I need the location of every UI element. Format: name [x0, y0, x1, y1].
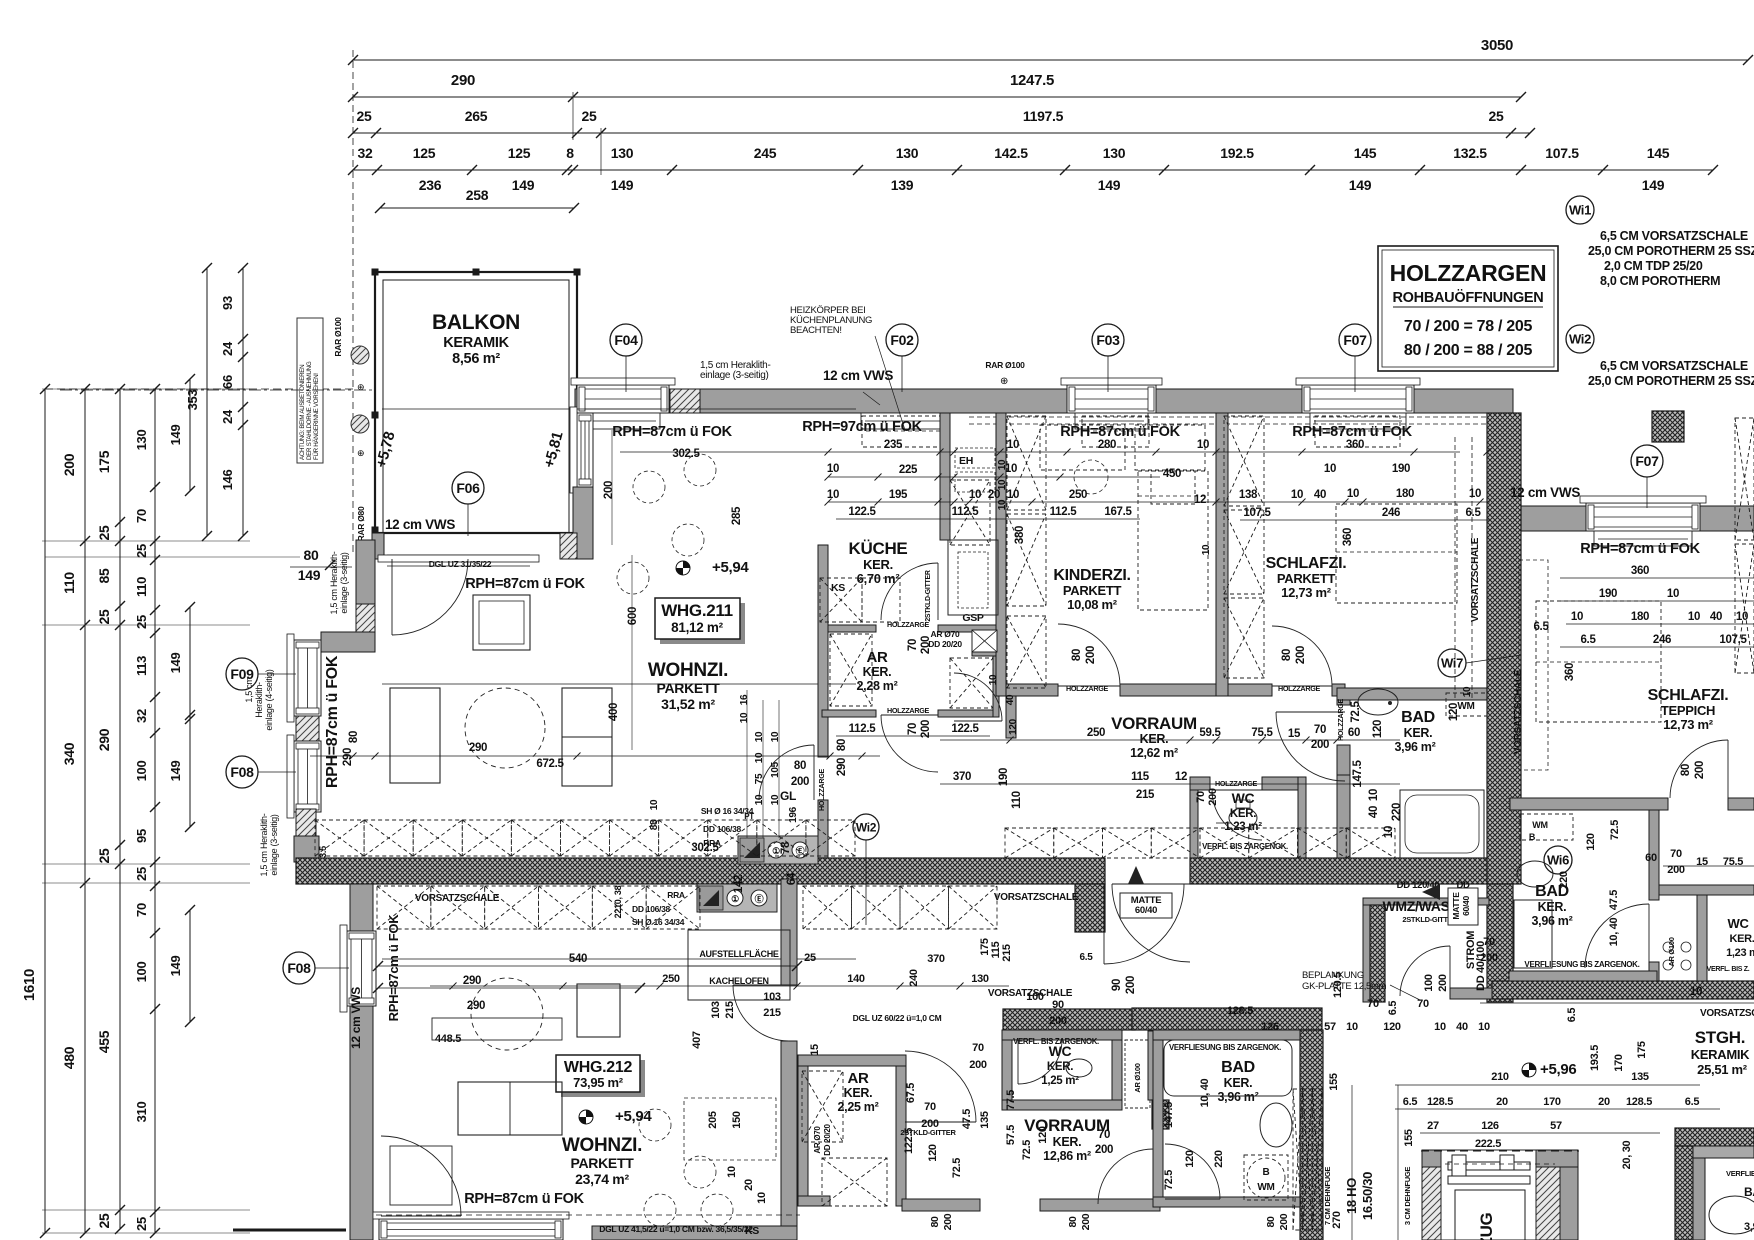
svg-text:200: 200: [1295, 646, 1307, 664]
wall between vorraum and bad: [1337, 745, 1350, 775]
svg-text:200: 200: [1311, 739, 1329, 751]
svg-text:①: ①: [731, 894, 739, 904]
window F07 opening: [1302, 385, 1414, 413]
svg-text:80: 80: [836, 739, 848, 751]
svg-text:F07: F07: [1343, 332, 1367, 348]
svg-text:60/40: 60/40: [1135, 905, 1157, 916]
svg-text:DD 106/38: DD 106/38: [632, 904, 671, 914]
svg-text:149: 149: [168, 425, 183, 446]
svg-text:149: 149: [611, 177, 634, 193]
svg-text:10: 10: [1690, 986, 1702, 998]
svg-text:25,0 CM POROTHERM 25 SSZ P+F: 25,0 CM POROTHERM 25 SSZ P+F: [1588, 374, 1754, 388]
svg-text:HOLZZARGE: HOLZZARGE: [887, 620, 930, 629]
kitchen counter dashed: [820, 578, 862, 622]
svg-text:200: 200: [1667, 864, 1685, 876]
svg-text:10: 10: [1007, 439, 1019, 451]
svg-text:80: 80: [1265, 1216, 1277, 1228]
svg-text:142: 142: [733, 875, 745, 893]
svg-text:200: 200: [791, 776, 809, 788]
svg-text:einlage (3-seitig): einlage (3-seitig): [339, 552, 349, 613]
svg-text:2,0 CM TDP 25/20: 2,0 CM TDP 25/20: [1604, 259, 1703, 273]
svg-text:80: 80: [1281, 649, 1293, 661]
dashed cabinets KINDERZI top: [1040, 425, 1125, 470]
svg-text:236: 236: [419, 177, 442, 193]
right BAD dims: [1663, 865, 1754, 867]
svg-text:130: 130: [611, 145, 634, 161]
corridor wall 212: [781, 879, 797, 985]
svg-text:1,5 cm: 1,5 cm: [244, 677, 254, 702]
svg-text:3.5: 3.5: [318, 846, 328, 858]
svg-text:BAD: BAD: [1221, 1059, 1255, 1076]
fixtures BAD211 tub: [1400, 790, 1484, 858]
svg-text:6.5: 6.5: [1566, 1008, 1578, 1023]
svg-text:RPH=87cm ü FOK: RPH=87cm ü FOK: [386, 914, 401, 1022]
svg-text:78: 78: [780, 841, 792, 854]
svg-text:190: 190: [1392, 463, 1410, 475]
svg-text:10: 10: [1571, 611, 1583, 623]
svg-text:10: 10: [754, 731, 765, 742]
RAR circles on grid line: [351, 346, 369, 364]
svg-text:2STKLD-GITTER: 2STKLD-GITTER: [925, 570, 932, 622]
svg-text:112.5: 112.5: [849, 723, 877, 735]
vorraum east walls: [1148, 1031, 1160, 1100]
svg-text:32: 32: [134, 709, 149, 723]
svg-text:75.5: 75.5: [1723, 856, 1743, 868]
schlafzi right door arc: [1670, 740, 1728, 798]
schlafzi door arc: [1272, 626, 1332, 686]
svg-text:1,5 cm Heraklith-: 1,5 cm Heraklith-: [259, 813, 269, 876]
svg-text:407: 407: [691, 1031, 703, 1049]
svg-text:GK-PLATTE 12,5mm: GK-PLATTE 12,5mm: [1302, 981, 1387, 992]
svg-text:120: 120: [927, 1144, 939, 1162]
wall stub below vorraum wall: [1006, 696, 1016, 738]
chairs dashed circles: [633, 471, 665, 503]
svg-text:220: 220: [1213, 1150, 1225, 1168]
svg-text:einlage (3-seitig): einlage (3-seitig): [700, 370, 769, 381]
svg-text:einlage (4-seitig): einlage (4-seitig): [264, 669, 274, 730]
hatch block heraklith: [670, 389, 700, 413]
crosshatch band main horizontal: [296, 858, 1105, 884]
svg-text:10: 10: [1324, 463, 1336, 475]
svg-text:142.5: 142.5: [994, 145, 1028, 161]
svg-text:HOLZZARGE: HOLZZARGE: [817, 768, 826, 811]
svg-text:10: 10: [1201, 544, 1212, 555]
AR212 east door arc: [905, 1051, 976, 1122]
svg-text:225: 225: [899, 464, 918, 476]
svg-text:155: 155: [1403, 1129, 1415, 1147]
svg-text:EH: EH: [959, 455, 973, 467]
WC right west wall: [1697, 895, 1707, 981]
svg-text:31,52 m²: 31,52 m²: [661, 696, 715, 712]
window tag F04: [625, 356, 627, 392]
xstrip above band right: [1005, 828, 1054, 858]
svg-text:25,51 m²: 25,51 m²: [1697, 1062, 1748, 1077]
kueche area door arc: [881, 715, 938, 772]
svg-text:RPH=87cm ü FOK: RPH=87cm ü FOK: [465, 576, 585, 592]
crosshatch leg at entry 212: [1075, 884, 1105, 932]
wardrobe boxes right edge: [1735, 418, 1754, 540]
svg-text:F07: F07: [1635, 453, 1659, 469]
svg-text:Ⓔ: Ⓔ: [755, 893, 764, 904]
svg-text:246: 246: [1382, 507, 1400, 519]
svg-text:147.5: 147.5: [1163, 1102, 1175, 1128]
left dimension chain 175/25/85/25/290/25/455/25: [119, 389, 121, 1229]
svg-text:59.5: 59.5: [1199, 727, 1221, 739]
stair BAD fixtures: [1709, 1196, 1754, 1234]
svg-text:15: 15: [809, 1044, 821, 1056]
VORRAUM north wall: [1006, 684, 1058, 696]
window F02 opening: [852, 954, 854, 956]
svg-text:110: 110: [61, 572, 77, 594]
svg-text:200: 200: [61, 453, 77, 476]
svg-text:370: 370: [953, 771, 971, 783]
svg-text:10: 10: [827, 489, 839, 501]
svg-text:80: 80: [929, 1216, 941, 1228]
svg-text:ACHTUNG: BEIM AUSBETONIEREN: ACHTUNG: BEIM AUSBETONIEREN: [299, 365, 306, 460]
inner dimension lines upper rooms: [620, 451, 1460, 453]
svg-text:KER.: KER.: [844, 1086, 873, 1100]
left dimension chain 200/110/340/480: [84, 389, 86, 1233]
entry 211 door arc: [1112, 884, 1190, 962]
stgh dims: [1395, 1084, 1700, 1086]
BAD 211 north wall: [1337, 688, 1487, 700]
AR212 walls: [798, 1055, 906, 1066]
svg-text:72.5: 72.5: [1163, 1170, 1175, 1190]
exterior wall right top band: [1513, 506, 1754, 531]
svg-text:107.5: 107.5: [1243, 507, 1271, 519]
lift dashed opening: [1421, 1150, 1579, 1152]
svg-text:AR Ø100: AR Ø100: [1133, 1063, 1142, 1092]
svg-text:HOLZZARGE: HOLZZARGE: [1066, 684, 1109, 693]
KINDERZI SCHLAFZI divider wall: [1216, 413, 1228, 696]
svg-text:10, 40: 10, 40: [1608, 917, 1620, 946]
crosshatch band right lower: [1492, 981, 1754, 999]
svg-text:KER.: KER.: [1729, 933, 1754, 945]
AR south wall: [822, 710, 876, 717]
bad211 door arc: [1276, 712, 1345, 781]
svg-text:Wi2: Wi2: [1569, 332, 1591, 347]
svg-text:70: 70: [1314, 724, 1326, 736]
svg-text:1197.5: 1197.5: [1023, 108, 1064, 124]
svg-text:250: 250: [1069, 489, 1087, 501]
level marks: [676, 561, 690, 575]
svg-text:72.5: 72.5: [1021, 1140, 1033, 1160]
svg-text:200: 200: [1694, 761, 1706, 779]
svg-text:10: 10: [649, 799, 660, 810]
WC212 walls: [1002, 1030, 1122, 1040]
svg-text:149: 149: [1349, 177, 1372, 193]
svg-text:215: 215: [1001, 944, 1013, 962]
svg-text:F06: F06: [456, 480, 480, 496]
wohnzi dim row2: [619, 560, 621, 860]
svg-text:200: 200: [921, 1118, 939, 1130]
svg-text:47.5: 47.5: [1608, 890, 1620, 910]
svg-text:WM: WM: [1532, 820, 1547, 830]
svg-text:180: 180: [1631, 611, 1649, 623]
svg-text:250: 250: [662, 973, 680, 985]
kueche door arc: [881, 563, 938, 620]
svg-text:200: 200: [920, 636, 932, 654]
svg-text:147.5: 147.5: [1352, 759, 1364, 787]
vorraum212 door arc: [1165, 1144, 1220, 1199]
svg-text:220: 220: [1558, 871, 1570, 889]
window tag F07: [1354, 356, 1356, 392]
lift machinery: [1448, 1162, 1530, 1170]
wall west of kitchen corridor: [818, 545, 828, 757]
svg-text:70: 70: [1417, 998, 1429, 1010]
right apartment dim rows: [1560, 577, 1754, 579]
svg-text:VERFL. BIS ZARGENOK.: VERFL. BIS ZARGENOK.: [1202, 842, 1288, 851]
svg-text:77.5: 77.5: [1005, 1090, 1017, 1110]
svg-text:20, 30: 20, 30: [1621, 1140, 1633, 1169]
svg-text:RPH=97cm ü FOK: RPH=97cm ü FOK: [802, 419, 922, 435]
svg-text:6.5: 6.5: [1533, 621, 1549, 633]
apartment box WHG211: [660, 603, 745, 644]
svg-text:138: 138: [1239, 489, 1258, 501]
svg-text:3050: 3050: [1481, 37, 1513, 54]
svg-text:25,0 CM POROTHERM 25 SSZ P+F: 25,0 CM POROTHERM 25 SSZ P+F: [1588, 244, 1754, 258]
window tag F08: [258, 771, 296, 773]
svg-text:60/40: 60/40: [1461, 896, 1471, 916]
svg-text:60: 60: [1348, 727, 1360, 739]
svg-text:DD 20/20: DD 20/20: [928, 639, 962, 649]
wohnzi dim row: [310, 755, 880, 757]
svg-text:125: 125: [413, 145, 436, 161]
WHG212 west wall: [350, 884, 373, 931]
svg-text:2210, 38: 2210, 38: [613, 885, 623, 918]
svg-text:HOLZZARGE: HOLZZARGE: [1215, 779, 1258, 788]
svg-text:135: 135: [979, 1111, 991, 1129]
svg-text:BA: BA: [1744, 1185, 1754, 1199]
svg-text:132.5: 132.5: [1453, 145, 1487, 161]
svg-text:24: 24: [220, 409, 235, 424]
svg-text:B: B: [1263, 1167, 1270, 1178]
vorsatzschale dashed strip left of party wall: [1454, 437, 1456, 700]
svg-text:einlage (3-seitig): einlage (3-seitig): [269, 814, 279, 875]
kitchen east wall upper: [940, 413, 950, 540]
svg-text:F08: F08: [287, 960, 311, 976]
wall tag Wi1: [1566, 196, 1594, 224]
svg-text:3,96 m²: 3,96 m²: [1218, 1090, 1259, 1104]
svg-text:120.5: 120.5: [1332, 972, 1344, 998]
svg-text:130: 130: [896, 145, 919, 161]
svg-text:B: B: [1529, 832, 1536, 842]
svg-text:24: 24: [220, 341, 235, 356]
window tag F07 right: [1646, 477, 1648, 508]
wall tag Wi6: [1544, 846, 1572, 874]
svg-text:149: 149: [168, 761, 183, 782]
svg-text:120: 120: [1383, 1021, 1401, 1033]
xstrip WHG212 entry: [377, 886, 431, 929]
stair area walls bottom right: [1675, 1128, 1754, 1146]
svg-text:Wi1: Wi1: [1569, 203, 1591, 218]
svg-text:25: 25: [134, 544, 149, 558]
window tag F03: [1107, 356, 1109, 392]
svg-text:258: 258: [466, 187, 489, 203]
wall tag Wi2 center: [865, 840, 867, 925]
svg-text:F08: F08: [230, 764, 254, 780]
svg-text:60: 60: [1645, 852, 1657, 864]
svg-text:67.5: 67.5: [905, 1083, 917, 1103]
svg-text:235: 235: [884, 439, 903, 451]
dimension chain top row 3 (25/265/25/1197.5/25): [353, 132, 1530, 134]
heater dashed rects under windows: [862, 416, 947, 447]
BAD right east wall: [1649, 810, 1659, 900]
svg-text:120: 120: [1448, 703, 1460, 721]
svg-text:F03: F03: [1096, 332, 1120, 348]
svg-text:285: 285: [731, 506, 743, 525]
svg-text:200: 200: [603, 481, 615, 499]
svg-text:155: 155: [1328, 1073, 1340, 1091]
svg-text:215: 215: [1136, 789, 1155, 801]
svg-text:VORSATZSCHALE: VORSATZSCHALE: [994, 892, 1079, 903]
wohnzi212 door arc: [733, 985, 789, 1041]
svg-text:672.5: 672.5: [536, 758, 564, 770]
svg-text:10: 10: [1347, 488, 1359, 500]
svg-text:200: 200: [1207, 788, 1219, 806]
window F03 opening: [1067, 385, 1156, 413]
svg-text:6,5 CM VORSATZSCHALE: 6,5 CM VORSATZSCHALE: [1600, 229, 1748, 243]
svg-text:10: 10: [827, 463, 839, 475]
svg-text:WHG.212: WHG.212: [564, 1059, 633, 1076]
svg-text:126: 126: [1261, 1021, 1279, 1033]
svg-text:WC: WC: [1232, 790, 1255, 806]
svg-text:360: 360: [1346, 439, 1364, 451]
xstrip below band: [803, 886, 852, 929]
right BAD sink: [1517, 861, 1553, 887]
svg-text:10: 10: [1291, 489, 1303, 501]
svg-text:3,9: 3,9: [1744, 1221, 1754, 1233]
shaft between WC and BAD 212: [1125, 1040, 1150, 1108]
svg-text:80: 80: [1071, 649, 1083, 661]
svg-text:190: 190: [998, 768, 1010, 786]
west wall lower piece: [294, 836, 319, 862]
svg-text:170: 170: [1613, 1054, 1625, 1072]
svg-text:149: 149: [168, 653, 183, 674]
dimension chain top row 1 (3050): [353, 59, 1748, 61]
right WM dashed: [1520, 814, 1573, 840]
stgh door arc: [1400, 946, 1450, 996]
svg-text:RPH=87cm ü FOK: RPH=87cm ü FOK: [464, 1191, 584, 1207]
svg-text:70: 70: [1195, 791, 1207, 803]
svg-text:175: 175: [1636, 1041, 1648, 1059]
svg-text:PARKETT: PARKETT: [657, 680, 721, 696]
svg-text:103: 103: [710, 1001, 722, 1019]
svg-text:12 cm VWS: 12 cm VWS: [823, 368, 893, 383]
svg-text:12 cm VWS: 12 cm VWS: [1510, 485, 1580, 500]
svg-text:20: 20: [743, 1179, 755, 1191]
svg-text:10: 10: [1667, 588, 1679, 600]
svg-text:72.5: 72.5: [1609, 820, 1621, 840]
apartment box WHG212: [561, 1060, 645, 1097]
svg-text:VERFL. BIS ZARGENOK.: VERFL. BIS ZARGENOK.: [1013, 1037, 1099, 1046]
svg-text:40: 40: [1005, 694, 1016, 705]
dash-dot building line: [60, 389, 375, 391]
svg-text:107.5: 107.5: [1545, 145, 1579, 161]
svg-text:70 / 200 = 78 / 205: 70 / 200 = 78 / 205: [1404, 318, 1533, 335]
svg-text:DD 20/20: DD 20/20: [823, 1123, 832, 1155]
wc211 door arc: [1212, 790, 1262, 840]
vorsatzschale strip right apartment: [1519, 560, 1548, 770]
HOLZZARGEN info box: [1378, 246, 1558, 371]
svg-text:80: 80: [348, 731, 360, 743]
svg-text:120: 120: [1037, 1126, 1049, 1144]
svg-text:HOLZZARGE: HOLZZARGE: [887, 706, 930, 715]
svg-text:KER.: KER.: [1140, 732, 1169, 746]
aufstellflaeche kachelofen: [688, 930, 790, 1000]
svg-text:F04: F04: [614, 332, 638, 348]
svg-text:302.5: 302.5: [691, 842, 719, 854]
svg-text:122.5: 122.5: [903, 1128, 915, 1154]
exterior wall top band: [575, 389, 1513, 413]
bottom windows WHG212: [379, 1219, 563, 1240]
svg-text:+5,94: +5,94: [615, 1108, 652, 1125]
svg-text:103: 103: [763, 991, 781, 1003]
terrace door arc: [392, 559, 468, 635]
svg-text:15: 15: [1288, 728, 1301, 740]
svg-text:25: 25: [134, 867, 149, 881]
left dimension chain 1610: [44, 389, 46, 1233]
svg-text:KINDERZI.: KINDERZI.: [1053, 567, 1130, 584]
svg-text:149: 149: [298, 567, 321, 583]
svg-text:47.5: 47.5: [961, 1109, 973, 1129]
svg-text:455: 455: [96, 1030, 112, 1053]
svg-text:400: 400: [608, 703, 620, 721]
svg-text:205: 205: [707, 1111, 719, 1129]
svg-text:23,74 m²: 23,74 m²: [575, 1171, 629, 1187]
balcony walls: [375, 272, 577, 533]
WC211 toilet: [1229, 808, 1257, 828]
svg-text:81,12 m²: 81,12 m²: [671, 620, 723, 635]
svg-text:25: 25: [1489, 108, 1504, 124]
svg-text:TEPPICH: TEPPICH: [1661, 703, 1715, 718]
svg-text:Heraklith-: Heraklith-: [254, 682, 264, 718]
svg-text:8,0 CM POROTHERM: 8,0 CM POROTHERM: [1600, 274, 1720, 288]
svg-text:12: 12: [1175, 771, 1187, 783]
svg-text:245: 245: [754, 145, 777, 161]
svg-text:193.5: 193.5: [1589, 1045, 1601, 1071]
svg-text:12,73 m²: 12,73 m²: [1281, 585, 1332, 600]
svg-text:10: 10: [969, 489, 981, 501]
svg-text:DD 40/100: DD 40/100: [1475, 941, 1487, 991]
svg-text:⊕: ⊕: [1000, 376, 1008, 387]
svg-text:40: 40: [1314, 489, 1326, 501]
svg-text:6.5: 6.5: [1685, 1096, 1700, 1108]
svg-text:25: 25: [804, 952, 816, 964]
fixtures right BAD tub: [1514, 900, 1552, 968]
svg-text:107.5: 107.5: [1719, 634, 1747, 646]
svg-text:130: 130: [971, 973, 989, 985]
AR shaft box: [972, 630, 997, 652]
svg-text:DGL UZ 31/35/22: DGL UZ 31/35/22: [429, 559, 492, 569]
svg-text:DD 106/38: DD 106/38: [703, 824, 742, 834]
svg-text:10, 40: 10, 40: [1199, 1078, 1211, 1107]
svg-text:10: 10: [754, 752, 765, 763]
vertical dim lines wohnzi: [746, 690, 748, 838]
svg-text:290: 290: [451, 72, 475, 89]
svg-text:KER.: KER.: [863, 557, 893, 572]
BAD right south lining: [1509, 971, 1657, 981]
svg-text:145: 145: [1647, 145, 1670, 161]
svg-text:WM: WM: [1257, 1182, 1274, 1193]
svg-text:MATTE: MATTE: [1451, 892, 1461, 920]
svg-text:RPH=87cm ü FOK: RPH=87cm ü FOK: [1580, 541, 1700, 557]
svg-text:130: 130: [1103, 145, 1126, 161]
svg-text:F02: F02: [890, 332, 914, 348]
svg-text:AR: AR: [866, 649, 888, 666]
window F09 in west wall: [294, 640, 321, 716]
svg-text:70: 70: [1098, 1129, 1110, 1141]
